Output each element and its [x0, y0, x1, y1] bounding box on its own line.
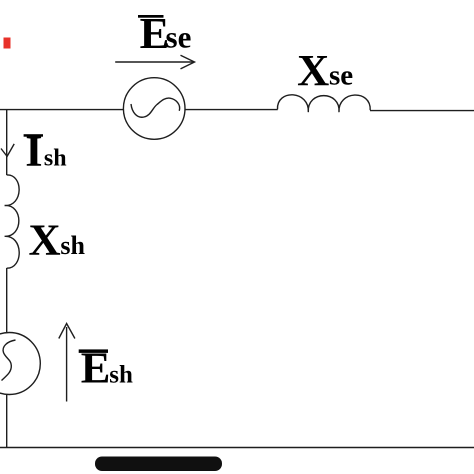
arrow E_sh direction: [59, 324, 75, 402]
arrow I_sh head: [1, 144, 14, 157]
ac source E_se: [123, 78, 185, 140]
inductor X_sh: [5, 175, 20, 268]
svg-text:E: E: [81, 343, 111, 393]
svg-text:se: se: [329, 60, 353, 92]
svg-text:X: X: [29, 215, 61, 265]
ac source E_sh: [0, 333, 40, 395]
svg-text:X: X: [297, 45, 329, 95]
label Ebar_se overbar: [138, 15, 164, 18]
arrow E_se direction: [115, 55, 194, 69]
label Ibar_sh overbar: [24, 134, 43, 137]
wire top bus right segment: [370, 110, 474, 112]
wire top bus left segment: [0, 109, 124, 111]
black bar overlay: [95, 457, 222, 472]
sine wave of E_sh: [2, 340, 16, 381]
svg-text:se: se: [166, 20, 192, 55]
wire top bus middle segment: [185, 109, 278, 111]
svg-text:sh: sh: [44, 146, 67, 172]
wire left branch upper: [6, 109, 8, 175]
red marker: [4, 38, 11, 49]
inductor X_se: [277, 95, 370, 112]
wire bottom bus: [0, 447, 474, 449]
wire left branch middle: [6, 268, 8, 333]
svg-text:sh: sh: [109, 362, 133, 389]
wire left branch lower: [6, 394, 8, 447]
svg-text:sh: sh: [60, 231, 85, 260]
svg-text:I: I: [25, 126, 42, 176]
sine wave of E_se: [131, 98, 180, 117]
label Ebar_sh overbar: [79, 349, 108, 353]
